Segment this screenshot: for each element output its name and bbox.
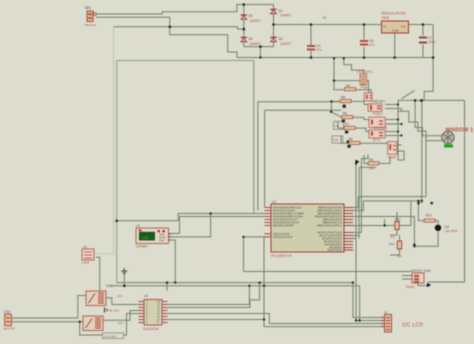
svg-text:10k: 10k <box>369 167 375 171</box>
svg-text:WINDOW 1: WINDOW 1 <box>446 128 474 134</box>
svg-text:PIC16F877A: PIC16F877A <box>271 254 292 258</box>
svg-text:ULN2003A: ULN2003A <box>143 327 159 331</box>
svg-text:VI: VI <box>383 25 386 29</box>
svg-text:Reset: Reset <box>406 285 414 289</box>
svg-text:VO: VO <box>401 25 406 29</box>
svg-text:100n: 100n <box>428 40 436 44</box>
svg-text:GND: GND <box>392 29 400 33</box>
svg-text:817C: 817C <box>373 138 381 142</box>
svg-text:1N4007: 1N4007 <box>280 14 291 18</box>
svg-text:12V: 12V <box>117 294 122 298</box>
svg-text:D2: D2 <box>249 14 253 18</box>
svg-text:R12: R12 <box>389 242 395 246</box>
svg-text:OFF: OFF <box>333 138 339 142</box>
svg-text:RB6/ICSPCLK/PGC: RB6/ICSPCLK/PGC <box>317 224 342 228</box>
svg-text:TBLOCK: TBLOCK <box>84 23 96 27</box>
svg-text:OSC2/CLKOUT: OSC2/CLKOUT <box>273 235 293 239</box>
svg-text:RESET SW1: RESET SW1 <box>412 269 432 273</box>
svg-text:R8: R8 <box>348 138 352 142</box>
svg-text:MOTOR: MOTOR <box>4 327 16 331</box>
svg-text:CN2: CN2 <box>4 310 11 314</box>
svg-text:7805: 7805 <box>381 16 389 20</box>
svg-text:REGULATOR: REGULATOR <box>381 11 406 16</box>
svg-text:U5: U5 <box>83 245 87 249</box>
svg-text:12V: 12V <box>118 321 123 325</box>
svg-text:ON: ON <box>335 124 340 128</box>
svg-text:J1: J1 <box>384 311 388 315</box>
svg-text:U1: U1 <box>272 200 276 204</box>
svg-text:RC6/TX/CK: RC6/TX/CK <box>327 248 342 252</box>
svg-text:SONAR: SONAR <box>136 245 148 249</box>
svg-text:12V ADP: 12V ADP <box>104 334 116 338</box>
svg-text:D4: D4 <box>249 37 253 41</box>
svg-text:R5: R5 <box>341 96 345 100</box>
svg-text:10k: 10k <box>390 235 395 239</box>
svg-text:D3: D3 <box>279 37 283 41</box>
svg-text:CONOUT1: CONOUT1 <box>357 70 373 74</box>
svg-text:4N35: 4N35 <box>388 156 396 160</box>
svg-text:R13: R13 <box>426 214 432 218</box>
svg-text:10k: 10k <box>397 254 402 258</box>
svg-text:U2: U2 <box>136 224 140 228</box>
svg-text:47u: 47u <box>369 43 375 47</box>
svg-text:I2C LCD: I2C LCD <box>402 323 423 329</box>
svg-text:LM35: LM35 <box>82 261 90 265</box>
svg-text:MOC3021: MOC3021 <box>373 126 388 130</box>
svg-text:U4: U4 <box>144 294 148 298</box>
svg-text:R7: R7 <box>345 123 349 127</box>
svg-text:128: 128 <box>142 235 149 240</box>
svg-text:GND: GND <box>159 240 165 243</box>
svg-text:R9: R9 <box>369 158 373 162</box>
svg-text:PC817: PC817 <box>373 112 383 116</box>
svg-text:R6: R6 <box>343 112 347 116</box>
svg-text:BR1: BR1 <box>85 6 91 10</box>
svg-text:D1: D1 <box>279 9 283 13</box>
svg-text:LED-RED: LED-RED <box>445 229 459 233</box>
svg-text:1N4007: 1N4007 <box>250 42 261 46</box>
svg-text:RELAY1: RELAY1 <box>373 100 385 104</box>
svg-text:RL1: RL1 <box>107 284 113 288</box>
svg-text:Popt: Popt <box>361 85 368 89</box>
svg-text:1N4007: 1N4007 <box>280 42 291 46</box>
svg-text:B1 12V: B1 12V <box>109 309 119 313</box>
svg-text:RE3/MCLR/VPP: RE3/MCLR/VPP <box>273 224 294 228</box>
svg-text:1N4007: 1N4007 <box>250 19 261 23</box>
svg-text:47u: 47u <box>316 48 322 52</box>
svg-text:R11: R11 <box>395 218 401 222</box>
svg-text:+V: +V <box>322 16 327 20</box>
svg-text:R4: R4 <box>346 84 350 88</box>
